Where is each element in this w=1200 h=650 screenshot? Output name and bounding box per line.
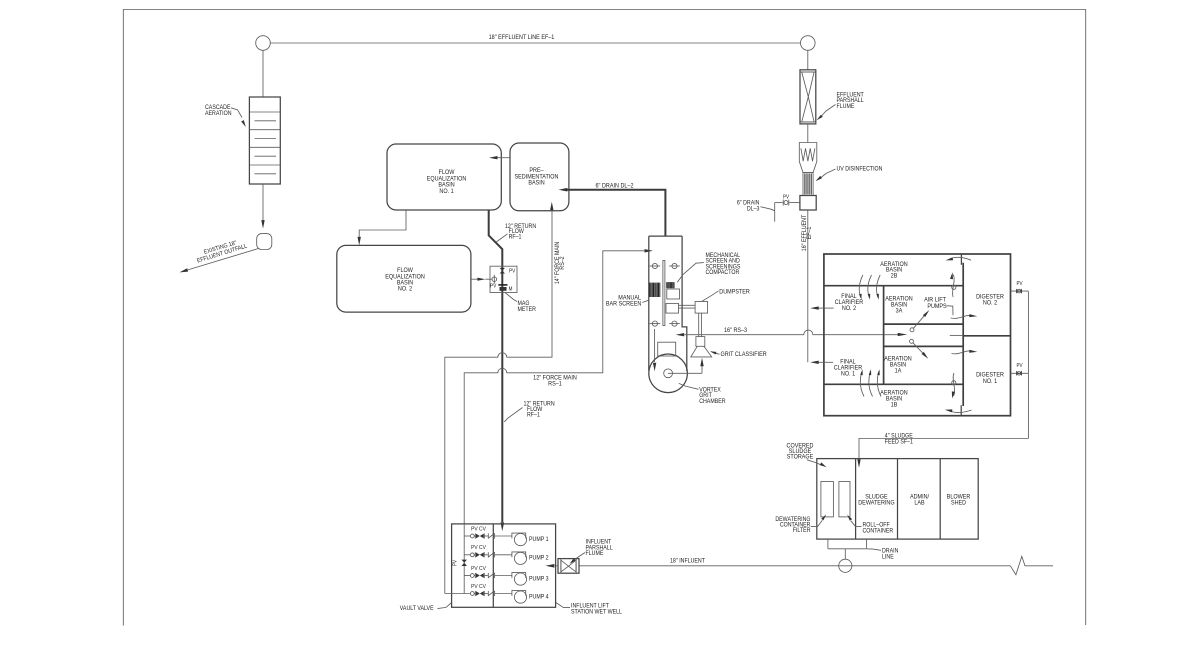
- dewatering container 1: [821, 482, 834, 517]
- flow arrow basin 3A to digester 2: [951, 314, 978, 318]
- label final clarifier no. 1: [834, 359, 862, 377]
- svg-text:PUMP 2: PUMP 2: [529, 555, 549, 561]
- label 14in force main RS-2: [555, 242, 566, 284]
- pump 3 branch wire: [464, 575, 512, 577]
- svg-text:DUMPSTER: DUMPSTER: [719, 289, 750, 295]
- svg-text:METER: METER: [518, 307, 536, 313]
- svg-text:CHAMBER: CHAMBER: [699, 399, 725, 405]
- label 12in force main RS-1: [533, 375, 577, 388]
- label existing 18in effluent outfall: [195, 237, 248, 264]
- svg-text:BAR SCREEN: BAR SCREEN: [606, 301, 641, 307]
- flow arrow basin 1A to digester 1: [952, 350, 978, 354]
- svg-text:FEED SF–1: FEED SF–1: [885, 439, 913, 445]
- flow curves basin 1B into clarifier 1: [860, 369, 881, 396]
- grit drop pipe dumpster to classifier: [699, 313, 702, 337]
- corridor north wall: [884, 323, 964, 325]
- flow arrow over bottom gate: [945, 409, 972, 412]
- svg-text:PV: PV: [783, 194, 790, 200]
- label mechanical screen and screenings compactor: [677, 253, 740, 282]
- svg-text:NO. 1: NO. 1: [841, 371, 855, 377]
- instrument circle in mag meter: [490, 275, 497, 290]
- node junction circle left (effluent line): [256, 36, 271, 51]
- digester west wall: [962, 263, 964, 406]
- gate circles upper: [650, 263, 680, 268]
- svg-text:GRIT CLASSIFIER: GRIT CLASSIFIER: [721, 352, 767, 358]
- wire flume to UV disinfection: [807, 124, 809, 143]
- influent lift station structure: [452, 524, 556, 607]
- svg-text:NO. 2: NO. 2: [398, 286, 412, 292]
- svg-text:18" INFLUENT: 18" INFLUENT: [670, 558, 705, 564]
- label 12in return flow RF-1 (lower): [504, 401, 554, 422]
- border frame: [123, 10, 1085, 626]
- node junction circle right (effluent line): [801, 36, 816, 51]
- flow arrow over top gate: [946, 257, 972, 260]
- svg-text:PUMP 3: PUMP 3: [529, 576, 549, 582]
- label UV disinfection: [816, 166, 883, 181]
- label flow equalization basin no. 2: [385, 268, 425, 293]
- svg-text:PV CV: PV CV: [471, 566, 486, 572]
- svg-text:UV DISINFECTION: UV DISINFECTION: [837, 166, 883, 172]
- svg-text:DL–3: DL–3: [747, 206, 760, 212]
- wire sludge header vertical: [1027, 291, 1029, 438]
- label influent parshall flume: [570, 539, 613, 563]
- wire 12in return flow RF-1 (basin 1 to mag meter to wet well): [489, 210, 504, 531]
- label blower shed: [947, 494, 971, 506]
- node outfall junction box: [257, 234, 272, 250]
- basin: flow equalization basin no. 2: [337, 245, 471, 312]
- label mag meter: [505, 293, 536, 313]
- mechanical screen box: [667, 289, 680, 299]
- label aeration basin 1A: [884, 356, 911, 374]
- wire clarifier 2 effluent: [810, 306, 834, 309]
- label aeration basin 2B: [880, 262, 907, 280]
- svg-text:RF–1: RF–1: [509, 234, 522, 240]
- wire effluent to cascade aeration: [262, 50, 264, 97]
- wire 18in influent line: [579, 556, 1053, 574]
- svg-text:PV CV: PV CV: [471, 584, 486, 590]
- label covered sludge storage: [787, 443, 827, 467]
- label admin lab: [910, 494, 929, 506]
- svg-text:PV: PV: [1016, 363, 1023, 369]
- wall above aeration basin 1B: [824, 383, 963, 385]
- label 4in sludge feed SF-1: [885, 433, 913, 446]
- valve vault manifold wire: [463, 524, 465, 594]
- UV disinfection unit: [799, 143, 817, 211]
- svg-text:RS–1: RS–1: [548, 381, 562, 387]
- mechanical screen hatch: [667, 282, 674, 288]
- valve PV vertical in vault: [452, 559, 467, 566]
- pump 3 symbol: [512, 573, 527, 586]
- valve CV check (pump 4): [488, 591, 494, 596]
- roll-off container 2: [839, 482, 850, 517]
- svg-text:1A: 1A: [895, 368, 902, 374]
- valve PV (pump 1): [470, 533, 484, 538]
- svg-text:FLUME: FLUME: [586, 551, 604, 557]
- svg-text:PUMP 4: PUMP 4: [529, 594, 549, 600]
- label digester no. 1: [976, 372, 1004, 385]
- svg-text:PV: PV: [1016, 281, 1023, 287]
- label sludge dewatering: [858, 494, 895, 506]
- label cascade aeration: [205, 105, 246, 127]
- label effluent parshall flume: [817, 92, 865, 120]
- label drain line: [867, 548, 898, 560]
- vortex grit chamber circle: [649, 354, 688, 393]
- label roll-off container: [847, 515, 893, 535]
- gate tick bottom wall: [960, 405, 962, 415]
- label dumpster: [702, 289, 750, 301]
- headworks channel structure: [649, 236, 687, 371]
- wire vortex chamber to grit classifier: [668, 358, 704, 374]
- wire effluent header from clarifiers to UV: [807, 210, 809, 362]
- wire building drain lines: [828, 539, 867, 559]
- wire 14in force main RS-2 (pump 4 to pre-sed basin): [445, 202, 554, 594]
- valve PV vertical (mag meter inlet): [500, 268, 516, 275]
- wire effluent node to parshall flume: [807, 50, 809, 70]
- screenings compactor box: [666, 303, 679, 313]
- svg-text:NO. 2: NO. 2: [842, 306, 856, 312]
- wire flow eq basin 2 to mag meter: [471, 278, 492, 281]
- valve CV check (pump 2): [488, 552, 494, 557]
- wire cascade to outfall node: [261, 184, 264, 229]
- label aeration basin 1B: [880, 390, 907, 408]
- air lift pump node lower: [910, 339, 929, 359]
- label grit classifier: [710, 351, 767, 358]
- pump 1 branch wire: [464, 535, 512, 537]
- svg-text:6" DRAIN DL–2: 6" DRAIN DL–2: [596, 183, 634, 189]
- label influent lift station wet well: [556, 603, 622, 616]
- wire existing 18in effluent outfall: [180, 249, 259, 273]
- effluent parshall flume: [800, 70, 816, 124]
- label final clarifier no. 2: [835, 294, 863, 312]
- flow arrow into vortex chamber: [653, 329, 656, 371]
- wire 4in sludge feed SF-1: [857, 439, 1028, 468]
- svg-text:LAB: LAB: [914, 500, 924, 506]
- pump 4 branch wire: [445, 593, 512, 595]
- wire 6in drain DL-2 (headworks to pre-sed basin): [559, 188, 666, 236]
- svg-text:NO. 1: NO. 1: [983, 379, 997, 385]
- node drain junction circle on influent: [839, 559, 852, 572]
- label aeration basin 3A: [885, 296, 912, 314]
- svg-text:3A: 3A: [896, 308, 903, 314]
- label 12in return flow RF-1 (upper): [496, 224, 536, 242]
- flow curves basin 2B into clarifier 2: [859, 275, 880, 300]
- grit chamber top box: [658, 342, 676, 356]
- svg-text:FLUME: FLUME: [837, 104, 855, 110]
- digester divider wall: [963, 335, 1010, 337]
- svg-text:CONTAINER: CONTAINER: [863, 528, 894, 534]
- svg-text:VAULT VALVE: VAULT VALVE: [400, 606, 434, 612]
- sludge building outline: [817, 459, 978, 539]
- mag meter element M: [498, 285, 512, 293]
- svg-text:PUMPS: PUMPS: [927, 304, 946, 310]
- influent parshall flume: [558, 559, 579, 574]
- valve PV (pump 2): [470, 552, 484, 557]
- svg-text:BASIN: BASIN: [528, 180, 544, 186]
- label pre-sedimentation basin: [515, 168, 559, 187]
- label vault valve: [400, 603, 452, 613]
- wall below aeration basin 2B: [824, 285, 963, 287]
- svg-text:RS–2: RS–2: [560, 256, 566, 269]
- corridor south wall: [884, 345, 964, 347]
- pump 2 branch wire: [464, 554, 512, 556]
- svg-text:2B: 2B: [891, 273, 898, 279]
- valve PV on drain DL-3: [783, 194, 790, 205]
- cascade aeration structure: [249, 97, 280, 184]
- channel divider wall: [663, 261, 665, 326]
- wire flume to wet well: [545, 564, 558, 568]
- grit classifier box and funnel: [691, 337, 712, 357]
- corridor stub wire: [950, 334, 963, 336]
- pump 1 symbol: [512, 533, 527, 546]
- svg-text:SHED: SHED: [951, 500, 966, 506]
- valve PV (pump 3): [470, 573, 484, 578]
- svg-text:PV CV: PV CV: [471, 526, 486, 532]
- svg-text:18" EFFLUENT LINE EF–1: 18" EFFLUENT LINE EF–1: [489, 35, 555, 41]
- svg-text:FILTER: FILTER: [793, 528, 811, 534]
- label air lift pumps: [924, 297, 953, 315]
- aeration basin complex outer wall: [824, 254, 1011, 416]
- svg-text:LINE: LINE: [882, 554, 894, 560]
- svg-text:RF–1: RF–1: [527, 412, 540, 418]
- basin: flow equalization basin no. 1: [387, 144, 501, 210]
- dumpster box: [695, 302, 708, 314]
- wire 18in effluent line EF-1: [270, 42, 800, 44]
- label flow equalization basin no. 1: [427, 170, 467, 195]
- svg-text:16" RS–3: 16" RS–3: [724, 328, 747, 334]
- svg-text:AERATION: AERATION: [205, 111, 232, 117]
- wall clarifier east: [883, 286, 885, 385]
- mag meter box: [490, 266, 517, 292]
- svg-text:STATION WET WELL: STATION WET WELL: [571, 609, 622, 615]
- label digester no. 2: [976, 294, 1004, 307]
- svg-text:PUMP 1: PUMP 1: [529, 537, 549, 543]
- air lift pump node upper: [910, 310, 929, 332]
- label manual bar screen: [606, 295, 649, 307]
- valve CV check (pump 1): [488, 533, 494, 538]
- label dewatering container filter: [775, 514, 826, 534]
- flow arrow basin 1A to 1B with node circle: [952, 373, 956, 399]
- valve PV (pump 4): [470, 591, 484, 596]
- svg-text:M: M: [509, 286, 513, 292]
- svg-text:NO. 2: NO. 2: [983, 300, 997, 306]
- svg-text:NO. 1: NO. 1: [439, 189, 453, 195]
- gate circles lower: [650, 321, 680, 326]
- svg-text:PV CV: PV CV: [471, 545, 486, 551]
- gate tick top wall: [960, 254, 962, 265]
- pump 2 symbol: [512, 552, 527, 565]
- flow arrow basin 3A to 2B with node circle: [950, 272, 956, 297]
- svg-text:1B: 1B: [891, 402, 898, 408]
- svg-text:PV: PV: [509, 268, 516, 274]
- svg-text:COMPACTOR: COMPACTOR: [706, 270, 740, 276]
- label 6in drain DL-3: [737, 200, 775, 212]
- conveyor to dumpster: [679, 305, 696, 308]
- wire pre-sed basin to flow eq basin 1: [489, 156, 510, 159]
- wire 6in drain DL-3: [775, 203, 800, 222]
- svg-text:PV: PV: [452, 559, 458, 566]
- wire 16in RS-3 (headworks to aeration corridor): [676, 330, 908, 336]
- wire digester 1 sludge with valve PV: [1011, 363, 1029, 376]
- label 16in effluent EF-1 vertical: [802, 214, 813, 251]
- wire 12in force main RS-1 (valve vault to headworks): [464, 249, 653, 524]
- valve CV check (pump 3): [488, 573, 494, 578]
- wire clarifier 1 effluent: [810, 361, 833, 364]
- svg-text:PV: PV: [490, 283, 497, 289]
- pump 4 symbol: [512, 591, 527, 604]
- svg-text:DEWATERING: DEWATERING: [858, 500, 895, 506]
- basin: pre-sedimentation basin: [510, 143, 569, 211]
- wire digester 2 sludge with valve PV: [1011, 281, 1029, 294]
- svg-text:STORAGE: STORAGE: [787, 454, 814, 460]
- manual bar screen hatch: [650, 283, 660, 297]
- wire flow eq basin 1 to basin 2: [358, 210, 407, 245]
- label vortex grit chamber: [679, 383, 726, 405]
